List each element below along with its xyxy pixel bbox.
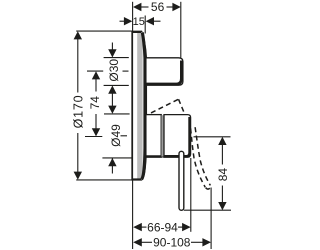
svg-text:74: 74: [88, 96, 102, 110]
svg-text:90-108: 90-108: [153, 236, 191, 250]
svg-text:Ø30: Ø30: [107, 59, 121, 82]
svg-text:Ø49: Ø49: [109, 124, 123, 147]
svg-text:84: 84: [216, 168, 230, 182]
svg-text:56: 56: [151, 0, 165, 14]
svg-text:Ø170: Ø170: [72, 95, 86, 129]
svg-text:66-94: 66-94: [147, 220, 178, 234]
svg-text:15: 15: [133, 16, 145, 28]
